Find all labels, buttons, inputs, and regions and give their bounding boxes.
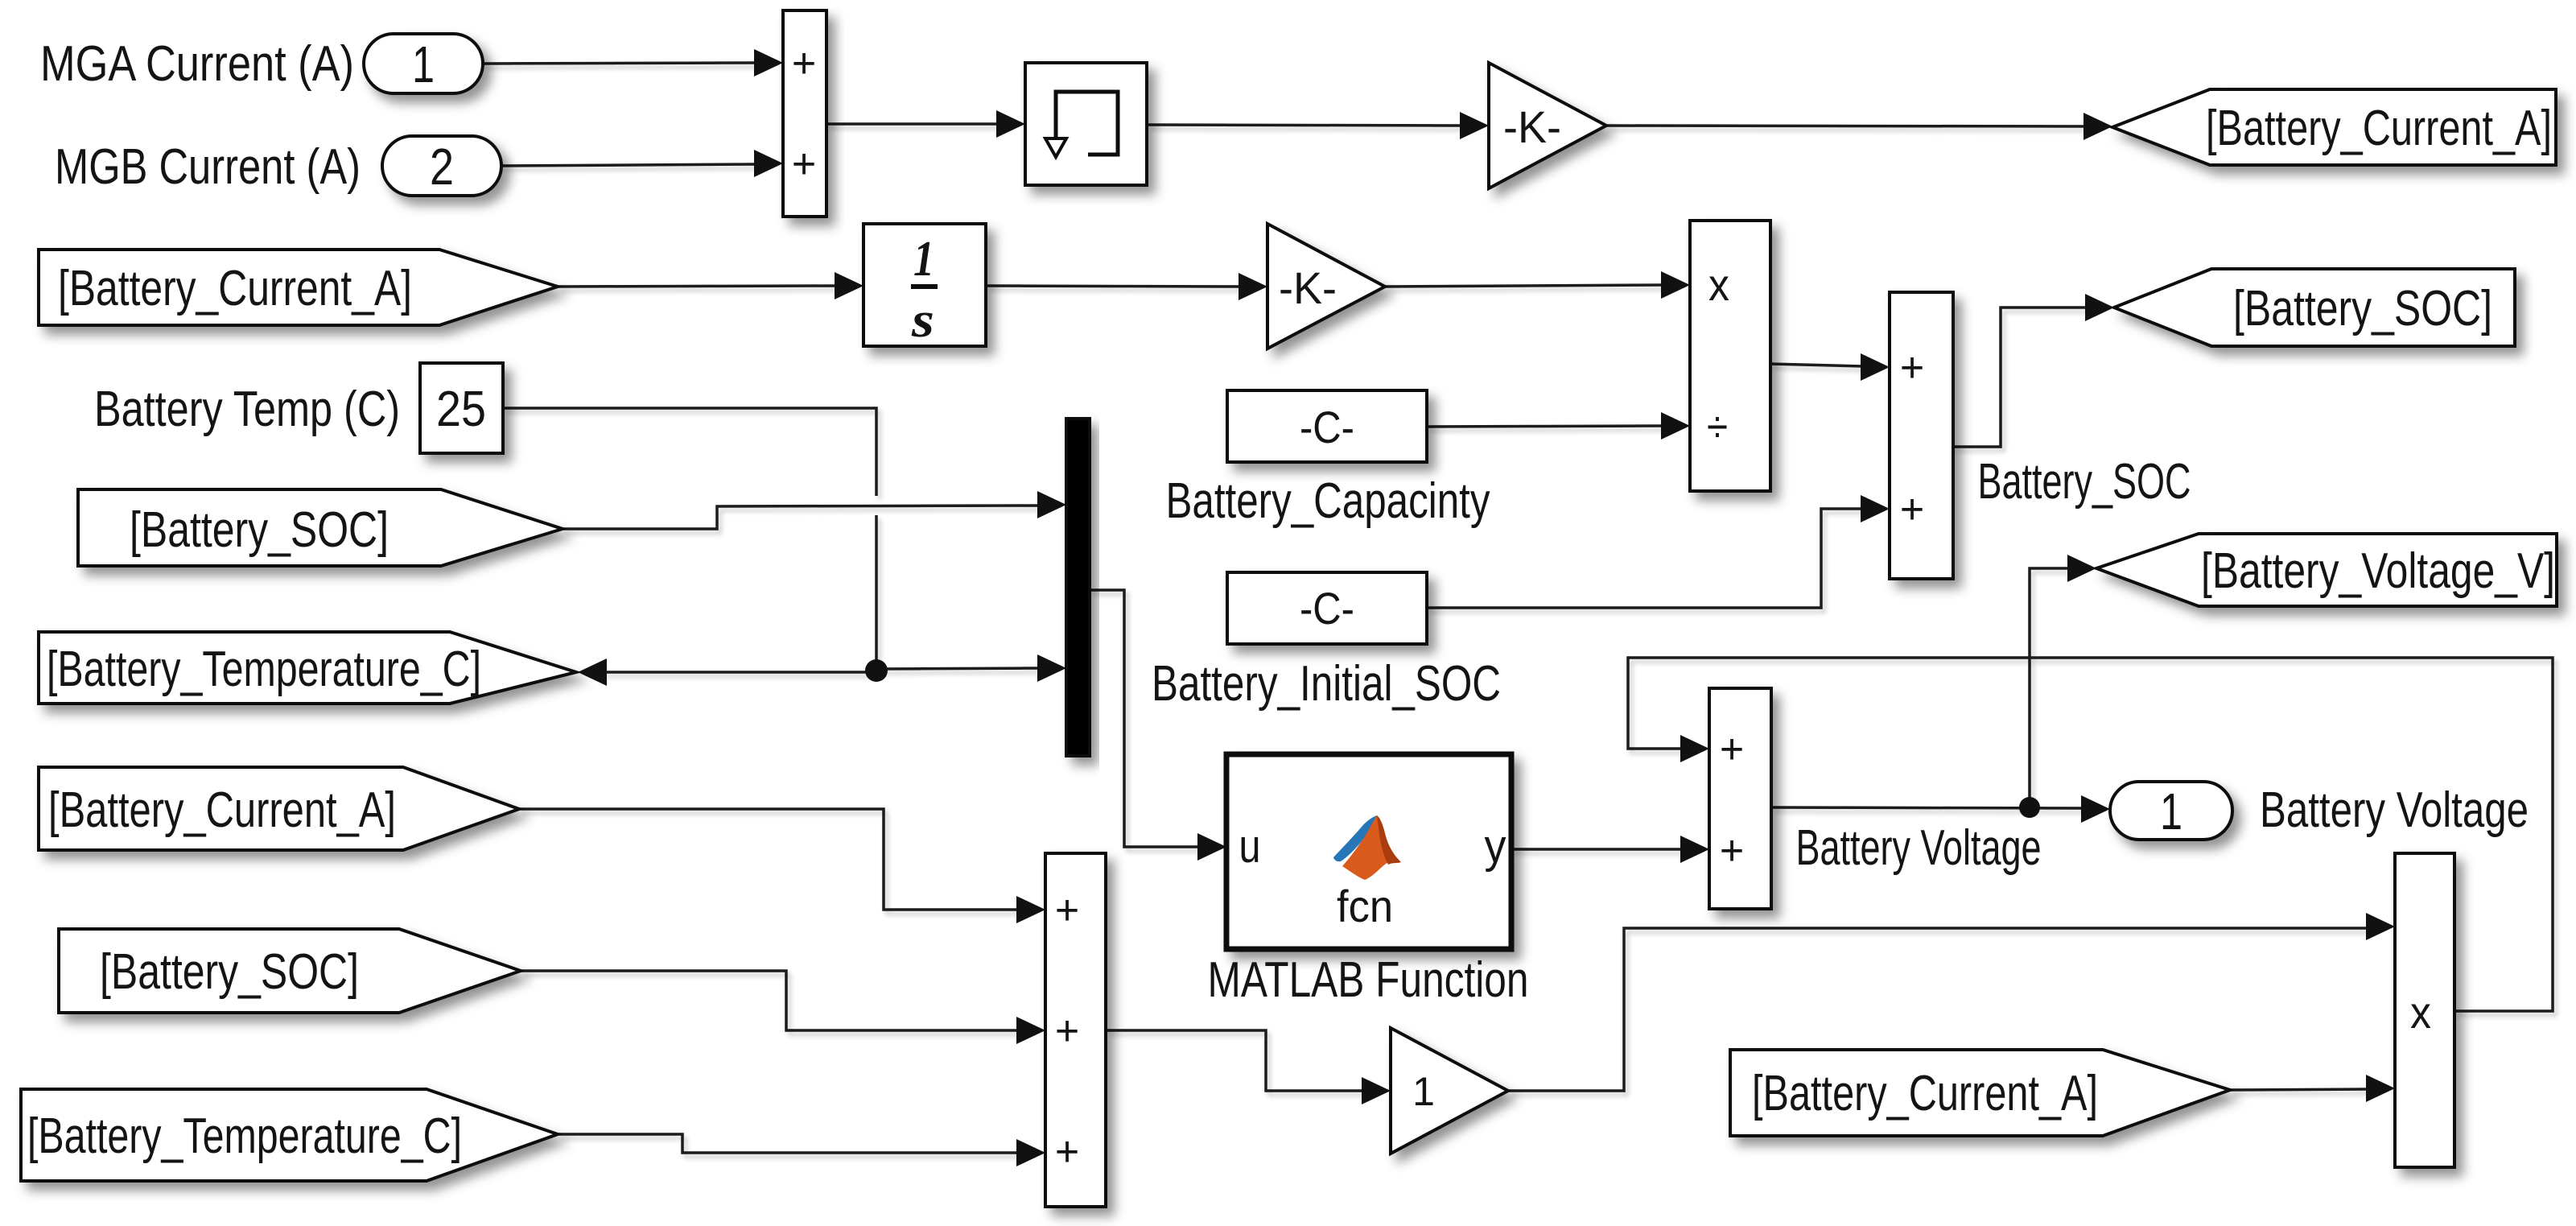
svg-text:[Battery_Current_A]: [Battery_Current_A] [48, 782, 396, 838]
constant C2 Battery_Initial_SOC [1227, 572, 1427, 644]
arrowhead into goto Battery_SOC [2085, 294, 2114, 321]
gain K2 [1267, 224, 1385, 349]
svg-text:Battery_SOC: Battery_SOC [1978, 454, 2191, 510]
MATLAB Function block [1226, 754, 1511, 949]
arrowhead into gain G3 [1362, 1077, 1391, 1104]
svg-text:+: + [1055, 1008, 1079, 1055]
wire product P1 to sum S2 [1770, 364, 1863, 366]
svg-text:[Battery_Current_A]: [Battery_Current_A] [1752, 1066, 2098, 1121]
wire from Battery_SOC 2 to sum S3 input 2 [521, 971, 1018, 1030]
arrowhead into goto Battery_Current_A [2083, 113, 2112, 140]
product P2 [2395, 853, 2454, 1167]
wire from Battery_Temperature_C 2 to sum S3 input 3 [558, 1134, 1018, 1153]
svg-text:-K-: -K- [1503, 101, 1561, 152]
from Battery_Current_A 1 [39, 250, 558, 325]
product P1 [1690, 221, 1770, 491]
arrowhead into mux input 1 [1037, 491, 1066, 518]
inport 1 MGA Current [364, 34, 483, 93]
arrowhead into mux input 2 [1037, 654, 1066, 682]
wire memory to gain K1 [1147, 125, 1462, 126]
arrowhead into MATLAB function u [1197, 833, 1226, 861]
wire gain K1 to goto Battery_Current_A [1606, 126, 2086, 126]
junction node V dot [2019, 797, 2040, 818]
wire sum S3 to gain G3 [1106, 1030, 1362, 1091]
wire from Battery_Current_A to integrator [558, 286, 837, 287]
mux bar [1066, 419, 1090, 756]
integrator 1/s [863, 224, 986, 346]
svg-text:MGB Current (A): MGB Current (A) [55, 139, 361, 195]
goto Battery_Temperature_C flipped [39, 632, 576, 704]
sum S2 Battery_SOC [1890, 292, 1953, 579]
arrowhead into goto Battery_Temperature_C [578, 658, 607, 686]
arrowhead into sum S3 input 2 [1016, 1017, 1045, 1044]
wire from Battery_SOC to mux input 1 [563, 506, 1040, 529]
wire constant C1 to product P1 divide input [1427, 426, 1663, 427]
arrowhead into gain K2 [1239, 273, 1267, 300]
svg-text:Battery Temp (C): Battery Temp (C) [94, 382, 400, 437]
svg-text:1: 1 [412, 35, 435, 93]
svg-text:+: + [792, 141, 816, 188]
goto Battery_SOC [2114, 269, 2515, 346]
svg-text:[Battery_Temperature_C]: [Battery_Temperature_C] [27, 1108, 462, 1164]
wire from Battery_Current_A 3 to product P2 input 2 [2230, 1089, 2367, 1090]
arrowhead into product P1 input divide [1661, 412, 1690, 440]
inport 2 MGB Current [382, 136, 501, 196]
wire mux to MATLAB function u [1090, 590, 1198, 847]
svg-text:25: 25 [436, 382, 486, 437]
svg-text:[Battery_SOC]: [Battery_SOC] [100, 944, 359, 1000]
svg-text:[Battery_SOC]: [Battery_SOC] [130, 502, 389, 558]
arrowhead into goto Battery_Voltage_V [2067, 555, 2096, 582]
svg-text:Battery Voltage: Battery Voltage [1796, 820, 2042, 876]
svg-text:MATLAB Function: MATLAB Function [1208, 952, 1529, 1008]
wire node V to goto Battery_Voltage_V [2030, 568, 2069, 807]
wire gain G3 to product P2 input 1 [1508, 928, 2367, 1091]
svg-text:y: y [1485, 820, 1506, 873]
gain K1 [1489, 63, 1606, 188]
svg-text:1: 1 [2160, 782, 2182, 840]
arrowhead into sum S1 input 2 [754, 150, 783, 177]
svg-text:[Battery_Voltage_V]: [Battery_Voltage_V] [2201, 543, 2555, 599]
outport 1 Battery Voltage [2110, 782, 2232, 840]
svg-text:+: + [792, 40, 816, 87]
svg-text:-C-: -C- [1300, 402, 1354, 452]
svg-text:+: + [1720, 828, 1744, 874]
svg-text:[Battery_Current_A]: [Battery_Current_A] [2206, 101, 2552, 156]
svg-text:s: s [911, 293, 934, 348]
arrowhead into product P1 input x [1661, 271, 1690, 299]
svg-text:1: 1 [1412, 1069, 1435, 1114]
arrowhead into sum S3 input 1 [1016, 896, 1045, 923]
gain G3 [1391, 1028, 1508, 1154]
constant 25 Battery Temp [420, 363, 503, 453]
arrowhead into sum S3 input 3 [1016, 1139, 1045, 1166]
svg-text:+: + [1900, 486, 1924, 533]
svg-text:+: + [1055, 1129, 1079, 1175]
wire node T to goto Battery_Temperature_C [604, 671, 876, 674]
wires group [483, 63, 2553, 1153]
sum S1 [783, 10, 826, 217]
wire inport1 to sum S1 [483, 63, 756, 64]
svg-text:+: + [1900, 345, 1924, 391]
from Battery_SOC 2 [59, 929, 521, 1013]
svg-text:÷: ÷ [1707, 401, 1728, 452]
from Battery_Current_A 3 [1730, 1050, 2230, 1136]
svg-text:[Battery_Temperature_C]: [Battery_Temperature_C] [47, 642, 481, 697]
wire sum S4 to outport Battery Voltage [1771, 807, 2083, 808]
wire constant C2 to sum S2 [1427, 509, 1863, 608]
arrowheads group [578, 49, 2395, 1166]
wire MATLAB function y to sum S4 [1511, 848, 1682, 851]
wire node T lower segment [875, 515, 878, 671]
arrowhead into sum S2 input 2 [1861, 495, 1890, 522]
arrowhead into gain K1 [1460, 112, 1489, 139]
arrowhead into outport Battery Voltage [2081, 795, 2110, 823]
arrowhead into sum S4 input 1 [1680, 735, 1709, 762]
wire sum S2 to goto Battery_SOC [1953, 308, 2088, 447]
svg-text:u: u [1239, 820, 1261, 873]
goto Battery_Current_A [2112, 89, 2556, 165]
svg-text:[Battery_SOC]: [Battery_SOC] [2233, 281, 2492, 336]
svg-text:+: + [1720, 726, 1744, 773]
arrowhead into sum S4 input 2 [1680, 836, 1709, 863]
from Battery_SOC 1 [78, 489, 563, 566]
goto Battery_Voltage_V [2096, 534, 2557, 606]
wire inport2 to sum S1 [501, 164, 756, 166]
wire product P2 feedback to sum S4 [1628, 658, 2553, 1011]
svg-text:Battery Voltage: Battery Voltage [2260, 782, 2529, 838]
svg-text:1: 1 [913, 232, 934, 287]
wire node T to mux input 2 [876, 668, 1040, 669]
arrowhead into integrator [835, 272, 863, 299]
from Battery_Temperature_C 2 [21, 1089, 558, 1181]
wire integrator to gain K2 [986, 286, 1241, 287]
svg-text:Battery_Capacinty: Battery_Capacinty [1166, 473, 1490, 529]
svg-text:fcn: fcn [1337, 881, 1393, 931]
arrowhead into sum S1 input 1 [754, 49, 783, 76]
svg-text:2: 2 [430, 138, 454, 196]
arrowhead into memory [996, 110, 1025, 138]
sum S3 [1045, 853, 1106, 1207]
sum S4 Battery Voltage [1709, 688, 1771, 909]
svg-text:-C-: -C- [1300, 583, 1354, 634]
svg-text:x: x [1708, 259, 1729, 310]
wire sum S1 to memory [826, 122, 998, 126]
arrowhead into product P2 input 2 [2366, 1075, 2395, 1102]
memory block [1025, 63, 1147, 185]
arrowhead into sum S2 input 1 [1861, 353, 1890, 381]
from Battery_Current_A 2 [39, 767, 519, 850]
svg-text:Battery_Initial_SOC: Battery_Initial_SOC [1152, 656, 1501, 712]
MATLAB logo [1333, 815, 1401, 880]
junction node T dot [865, 659, 888, 682]
svg-text:x: x [2410, 987, 2431, 1038]
svg-text:MGA Current (A): MGA Current (A) [40, 36, 354, 92]
svg-text:-K-: -K- [1279, 262, 1337, 313]
wire constant 25 down to node T [503, 408, 876, 496]
svg-text:+: + [1055, 887, 1079, 934]
wire from Battery_Current_A 2 to sum S3 input 1 [519, 809, 1018, 910]
constant C1 Battery_Capacinty [1227, 390, 1427, 462]
arrowhead into product P2 input 1 [2366, 913, 2395, 940]
svg-text:[Battery_Current_A]: [Battery_Current_A] [58, 261, 412, 316]
wire gain K2 to product P1 x input [1385, 285, 1663, 287]
